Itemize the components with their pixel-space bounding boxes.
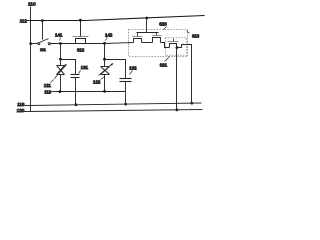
wire staircase down to 621 — [161, 43, 170, 48]
lead line 131 — [79, 71, 81, 74]
node dot C131 on rail A — [75, 103, 78, 106]
node 141 junction dot — [59, 42, 62, 45]
node junction dot on top rail for switch — [41, 19, 44, 22]
transistor 621 gate bar — [168, 41, 179, 43]
wire dash 112 — [27, 20, 31, 22]
svg-text:113: 113 — [44, 89, 51, 94]
lead line 142 — [106, 37, 108, 41]
wire left vertical rail — [30, 21, 32, 112]
svg-text:131: 131 — [81, 65, 89, 70]
piezo element 122 (variable bowtie) top lead — [104, 60, 106, 67]
wire bottom rail A — [29, 103, 202, 106]
wire stub to capacitor C132 — [105, 60, 126, 79]
piezo element 122 arrow — [99, 64, 113, 76]
wire main horizontal from switch to node 142 — [51, 43, 105, 45]
lead line 121 — [51, 80, 54, 83]
dashed box 620 — [128, 30, 187, 57]
svg-text:620: 620 — [159, 22, 167, 27]
transistor 612 gate lead — [80, 21, 82, 37]
svg-text:110: 110 — [28, 1, 36, 7]
lead line 132 — [130, 71, 133, 75]
node 142 junction dot — [103, 42, 106, 45]
piezo element 121 (variable bowtie) top lead — [60, 60, 62, 66]
node junction dot gate feed on top rail — [145, 17, 148, 20]
wire top rail — [31, 16, 205, 21]
wire dash 118 — [25, 105, 29, 107]
piezo element 122 crossed body — [101, 67, 110, 75]
transistor T2 gate stub — [156, 33, 158, 36]
piezo element 122 top bar — [101, 66, 110, 68]
svg-text:612: 612 — [77, 48, 85, 53]
dashed box 621 inner — [165, 38, 186, 55]
piezo element 121 top bar — [57, 65, 65, 67]
capacitor C132 bottom plate — [120, 81, 132, 83]
wire between T1 and T2 — [142, 42, 153, 44]
svg-text:121: 121 — [44, 83, 52, 88]
wire lead from 110 — [30, 7, 32, 21]
transistor T1 gate bar — [133, 36, 143, 38]
switch S111 blade — [40, 39, 49, 43]
lead line 620 — [164, 27, 167, 30]
transistor 621 gate stub — [173, 39, 175, 42]
piezo element 121 arrow — [55, 65, 67, 79]
transistor T2 channel hat — [153, 38, 161, 43]
node dot branch2 on bus — [103, 90, 106, 93]
svg-text:132: 132 — [129, 65, 137, 70]
piezo element 122 bottom lead — [104, 75, 106, 92]
transistor 621 channel hat — [170, 44, 177, 48]
node junction dot on left rail for switch wire — [29, 42, 32, 45]
wire switch upper contact drop — [42, 21, 44, 40]
transistor T1 gate stub — [137, 33, 139, 37]
wire branch1 drop — [60, 44, 62, 60]
wire bottom rail B — [29, 110, 203, 112]
node branch1 split dot — [59, 58, 62, 61]
capacitor C131 bottom lead down to rail A — [75, 78, 77, 105]
capacitor C131 top plate — [71, 74, 80, 76]
capacitor C131 bottom plate — [71, 77, 80, 79]
wire 621 output down to rail B — [176, 48, 178, 110]
svg-text:111: 111 — [40, 47, 46, 52]
svg-text:118: 118 — [17, 102, 25, 107]
node branch2 split dot — [103, 58, 106, 61]
lead line 122 — [101, 77, 105, 80]
transistor T2 gate bar — [153, 35, 162, 37]
svg-text:621: 621 — [160, 63, 168, 68]
wire dash 120 — [24, 111, 29, 113]
capacitor C132 bottom lead down to rail A — [125, 82, 127, 105]
wire into control box — [105, 43, 134, 44]
wire jog right to rail A — [177, 45, 192, 104]
transistor 612 gate junction dot on top rail — [79, 19, 82, 22]
capacitor C132 top plate — [120, 78, 132, 80]
svg-text:613: 613 — [192, 34, 200, 39]
wire branch2 drop — [104, 44, 106, 60]
piezo element 121 bottom bar — [57, 74, 65, 76]
wire bottom branch bus — [57, 91, 126, 93]
transistor T1 channel hat — [134, 39, 142, 43]
wire dash 113 — [52, 91, 57, 93]
node dot on rail B — [176, 109, 179, 112]
switch S111 pivot contact — [38, 43, 40, 45]
node dot branch1 on bus — [59, 90, 62, 93]
switch S111 fixed contact — [48, 43, 50, 45]
lead line 621 — [165, 57, 170, 62]
svg-text:120: 120 — [17, 108, 25, 113]
wire common gate bus — [137, 32, 159, 34]
wire gate feed drop — [146, 19, 148, 33]
node dot C132 on rail A — [124, 103, 127, 106]
transistor 612 channel hat — [76, 39, 86, 44]
node dot at 621 output — [176, 46, 179, 49]
transistor 612 gate bar — [73, 36, 89, 38]
svg-text:142: 142 — [105, 32, 113, 37]
lead line 141 — [60, 38, 61, 41]
svg-text:112: 112 — [20, 19, 28, 24]
svg-text:122: 122 — [93, 80, 101, 85]
svg-text:141: 141 — [55, 32, 63, 37]
node dot on rail A — [190, 102, 193, 105]
piezo element 122 bottom bar — [101, 74, 110, 76]
piezo element 121 crossed body — [57, 66, 65, 75]
wire stub to capacitor C131 — [61, 60, 76, 75]
lead line 613 — [187, 31, 190, 34]
wire to switch pivot — [31, 43, 38, 45]
piezo element 121 bottom lead — [60, 75, 62, 92]
